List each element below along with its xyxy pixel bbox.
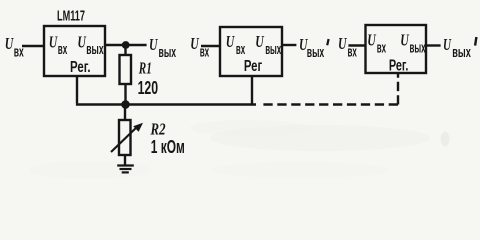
svg-text:вх: вх (200, 44, 210, 61)
svg-text:LM117: LM117 (57, 8, 85, 25)
svg-text:U: U (255, 32, 264, 51)
node A junction dot (122, 41, 130, 49)
svg-text:Рег: Рег (244, 58, 263, 75)
wire dashed vertical U3 Reg (397, 73, 399, 105)
svg-text:вх: вх (58, 41, 68, 58)
resistor R2 body (variable) (119, 120, 131, 155)
svg-text:вх: вх (14, 44, 24, 61)
svg-text:U: U (367, 31, 376, 50)
wire output U2 (282, 44, 296, 46)
wire input U1 (22, 45, 44, 47)
svg-text:Рег.: Рег. (389, 58, 409, 75)
node B junction dot (121, 100, 130, 109)
wire R1 top lead (124, 45, 126, 55)
svg-text:вых: вых (86, 41, 104, 58)
regulator U1 LM117 box (44, 26, 105, 76)
svg-text:Рег.: Рег. (70, 59, 91, 76)
svg-text:вых: вых (265, 41, 281, 58)
svg-text:U: U (149, 35, 158, 54)
svg-text:U: U (400, 31, 409, 50)
R2 wiper arrow (111, 123, 143, 152)
wire Reg horizontal (76, 103, 256, 105)
svg-text:вых: вых (307, 44, 325, 61)
wire R2 bottom lead (124, 155, 126, 166)
svg-text:U: U (5, 34, 14, 53)
regulator U3 box (366, 25, 427, 73)
resistor R1 body (120, 55, 132, 84)
svg-text:вых: вых (410, 40, 426, 57)
ground (117, 166, 134, 173)
svg-text:U: U (226, 32, 235, 51)
svg-text:U: U (443, 35, 451, 54)
wire input U3 (348, 44, 365, 46)
svg-text:U: U (190, 34, 199, 53)
wire input U2 (201, 45, 220, 47)
svg-text:120: 120 (138, 77, 159, 98)
wire R2 top lead (124, 105, 126, 121)
prime mark output3 (475, 37, 476, 46)
svg-text:1 кОм: 1 кОм (151, 136, 185, 157)
svg-text:вых: вых (452, 44, 471, 61)
wire U1 Reg pin down (76, 76, 78, 103)
svg-text:вх: вх (348, 44, 358, 61)
svg-text:U: U (338, 34, 347, 53)
svg-text:вх: вх (377, 40, 387, 57)
svg-text:U: U (77, 33, 86, 52)
svg-text:R1: R1 (138, 59, 152, 78)
regulator U2 box (220, 27, 282, 76)
prime mark output2 (327, 39, 328, 45)
wire output U3 (426, 44, 441, 46)
wire U2 Reg pin down (251, 76, 253, 106)
wire output U1 (105, 44, 147, 46)
wire R1 bottom lead (124, 84, 126, 105)
wire dashed horizontal (263, 103, 398, 105)
svg-text:вх: вх (236, 41, 246, 58)
svg-text:U: U (49, 33, 58, 52)
svg-text:вых: вых (159, 44, 177, 61)
